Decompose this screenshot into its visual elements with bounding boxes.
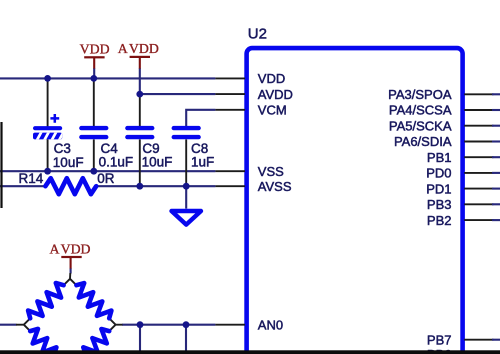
pin bridge top vertex lead xyxy=(64,273,77,285)
wire VCM net with corner to C8 xyxy=(186,110,215,126)
pin PB3 stub xyxy=(464,203,500,205)
capacitor C3 polarized plus sign xyxy=(50,114,59,123)
wire VSS net horizontal xyxy=(0,170,215,172)
junction AN0-b xyxy=(183,321,190,328)
junction C8-AVSS-GND xyxy=(183,183,190,190)
svg-text:PA5/SCKA: PA5/SCKA xyxy=(389,118,452,133)
svg-text:A VDD: A VDD xyxy=(118,41,159,56)
pin PD0 stub xyxy=(464,172,500,174)
power symbol VDD xyxy=(80,42,110,69)
svg-text:A VDD: A VDD xyxy=(49,241,90,256)
wire drop from AN0 node B xyxy=(185,325,187,352)
capacitor C4 plates xyxy=(79,126,108,130)
pin C4 top lead xyxy=(93,78,95,126)
pin PA6/SDIA stub xyxy=(464,141,500,143)
pin PA4/SCSA stub xyxy=(464,109,500,111)
svg-text:C4: C4 xyxy=(101,141,119,156)
pin C9 top lead xyxy=(139,94,141,127)
svg-text:C9: C9 xyxy=(142,141,159,156)
svg-text:0R: 0R xyxy=(97,171,115,186)
resistor bridge upper-left xyxy=(28,283,64,318)
svg-text:PA4/SCSA: PA4/SCSA xyxy=(389,103,452,118)
svg-text:1uF: 1uF xyxy=(191,155,214,170)
junction C4-VDD xyxy=(90,75,97,82)
junction C3-VDD xyxy=(44,75,51,82)
svg-text:PA3/SPOA: PA3/SPOA xyxy=(388,87,452,102)
svg-text:C3: C3 xyxy=(54,141,71,156)
pin VCM stub xyxy=(215,109,245,111)
pin C8 bottom lead xyxy=(185,139,187,186)
wire AVDD lower stem xyxy=(70,269,72,274)
left edge vertical black line xyxy=(0,122,2,208)
svg-text:AN0: AN0 xyxy=(258,317,283,332)
pin PB1 stub xyxy=(464,156,500,158)
pin VDD stub xyxy=(215,77,245,79)
junction C3-VSS xyxy=(44,168,51,175)
svg-text:PB3: PB3 xyxy=(427,197,452,212)
svg-text:R14: R14 xyxy=(19,171,44,186)
svg-text:C8: C8 xyxy=(191,141,208,156)
junction C9-AVDD xyxy=(136,91,143,98)
pin AVSS stub xyxy=(215,185,245,187)
pin bridge right vertex lead xyxy=(109,318,122,331)
pin VSS stub xyxy=(215,170,245,172)
svg-text:PD1: PD1 xyxy=(426,181,451,196)
pin PD1 stub xyxy=(464,188,500,190)
capacitor C3 hatched bottom plate xyxy=(33,131,64,142)
wire AVSS net right of R14 xyxy=(96,185,215,187)
wire VDD stem xyxy=(93,69,95,79)
wire AVSS net left of R14 xyxy=(0,185,46,187)
svg-text:VCM: VCM xyxy=(258,103,287,118)
pin AN0 stub xyxy=(215,324,245,326)
pin PA3/SPOA stub xyxy=(464,93,500,95)
wire AVDD stem crossing VDD wire xyxy=(139,69,141,95)
pin PB2 stub xyxy=(464,219,500,221)
svg-text:PB7: PB7 xyxy=(427,332,452,347)
pin PA5/SCKA stub xyxy=(464,125,500,127)
junction AN0-a xyxy=(137,321,144,328)
svg-text:PB2: PB2 xyxy=(427,213,452,228)
wire drop from AN0 node A xyxy=(139,325,141,352)
svg-text:0.1uF: 0.1uF xyxy=(99,155,134,170)
power symbol AVDD lower xyxy=(49,241,90,269)
svg-text:10uF: 10uF xyxy=(53,155,84,170)
resistor bridge lower-right xyxy=(74,329,109,354)
capacitor C9 plates xyxy=(125,126,154,130)
power symbol AVDD top xyxy=(118,41,159,69)
capacitor C8 plates xyxy=(172,126,201,130)
svg-text:AVDD: AVDD xyxy=(258,87,293,102)
wire AVDD net horizontal xyxy=(140,93,216,95)
wire bridge left vertex to edge xyxy=(0,324,17,326)
ground symbol xyxy=(172,211,202,225)
svg-text:PB1: PB1 xyxy=(427,150,452,165)
svg-text:VDD: VDD xyxy=(258,71,285,86)
svg-text:AVSS: AVSS xyxy=(258,179,292,194)
junction C9-AVSS xyxy=(136,183,143,190)
pin C3 top lead xyxy=(47,78,49,126)
junction C4-VSS xyxy=(90,168,97,175)
pin C3 bottom lead xyxy=(47,139,49,171)
wire VDD net horizontal xyxy=(0,77,215,79)
wire ground branch xyxy=(185,186,187,208)
bottom black bus wire xyxy=(0,350,500,354)
IC U2 box xyxy=(247,48,463,354)
pin bridge left vertex lead xyxy=(16,318,30,331)
svg-text:10uF: 10uF xyxy=(142,155,173,170)
pin AVDD stub xyxy=(215,93,245,95)
resistor bridge upper-right xyxy=(76,283,111,318)
wire AN0 net horizontal xyxy=(122,324,215,326)
svg-text:VSS: VSS xyxy=(258,164,284,179)
svg-text:U2: U2 xyxy=(248,26,267,43)
svg-text:PD0: PD0 xyxy=(426,166,451,181)
svg-text:VDD: VDD xyxy=(80,42,110,57)
resistor R14 zigzag xyxy=(45,178,96,194)
pin PB7 stub xyxy=(464,339,500,341)
capacitor C3 top plate xyxy=(33,126,62,130)
pin C4 bottom lead xyxy=(93,139,95,171)
pin C9 bottom lead crossing VSS xyxy=(139,139,141,186)
resistor bridge lower-left xyxy=(30,329,65,354)
svg-text:PA6/SDIA: PA6/SDIA xyxy=(394,134,452,149)
